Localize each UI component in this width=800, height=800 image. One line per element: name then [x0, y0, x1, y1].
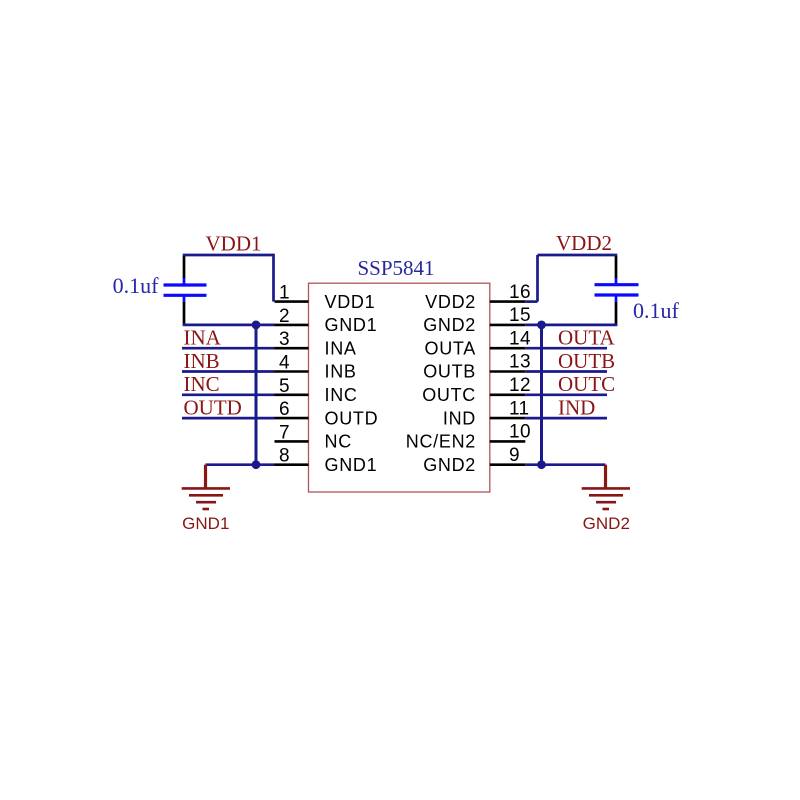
capacitor C1 bottom pin	[183, 297, 186, 325]
pin 10 number	[509, 422, 531, 443]
net label OUTC	[558, 372, 615, 396]
svg-text:VDD2: VDD2	[425, 292, 476, 312]
svg-text:VDD1: VDD1	[206, 232, 262, 256]
svg-text:VDD1: VDD1	[325, 292, 376, 312]
pin 10 stub	[490, 440, 526, 443]
pin 5 number	[279, 376, 290, 397]
pin 7 stub	[275, 440, 309, 443]
net VDD2 power label	[556, 231, 612, 255]
pin 12 stub	[490, 393, 526, 396]
junction pin9 bus	[537, 460, 546, 469]
pin 11 name IND	[443, 408, 476, 428]
svg-text:GND1: GND1	[325, 315, 378, 335]
svg-text:GND1: GND1	[325, 455, 378, 475]
net label OUTD	[184, 396, 242, 420]
ground GND2 symbol	[582, 465, 630, 509]
ground GND1 symbol	[182, 465, 230, 509]
net label OUTA	[558, 326, 615, 350]
pin 13 name OUTB	[423, 362, 476, 382]
capacitor C2 bottom pin	[615, 296, 618, 325]
pin 8 number	[279, 446, 290, 467]
pin 3 stub	[275, 347, 309, 350]
svg-text:0.1uf: 0.1uf	[113, 273, 160, 298]
capacitor C2 plates	[595, 285, 639, 295]
wire GND1 vertical bus	[255, 325, 258, 465]
svg-text:GND2: GND2	[583, 514, 630, 533]
pin 14 stub	[490, 347, 526, 350]
svg-text:8: 8	[279, 446, 290, 467]
pin 2 number	[279, 306, 290, 327]
wire net OUTA	[525, 347, 607, 350]
pin 16 stub	[490, 300, 526, 303]
pin 7 number	[279, 422, 290, 443]
net label INA	[184, 326, 222, 350]
svg-text:GND2: GND2	[423, 315, 476, 335]
svg-text:OUTA: OUTA	[425, 338, 476, 358]
pin 11 stub	[490, 417, 526, 420]
wire VDD2 vertical	[536, 255, 539, 302]
svg-text:INC: INC	[184, 372, 220, 396]
pin 9 stub	[490, 463, 526, 466]
pin 5 name INC	[325, 385, 358, 405]
wire pin 8 to ground	[206, 463, 275, 466]
pin 2 stub	[275, 324, 309, 327]
net label INC	[184, 372, 220, 396]
svg-text:6: 6	[279, 399, 290, 420]
pin 15 number	[509, 305, 531, 326]
pin 4 stub	[275, 370, 309, 373]
pin 12 number	[509, 375, 531, 396]
pin 3 number	[279, 329, 290, 350]
wire net OUTC	[525, 393, 607, 396]
pin 13 stub	[490, 370, 526, 373]
junction pin8 bus	[252, 460, 261, 469]
pin 7 name NC	[325, 432, 352, 452]
pin 12 name OUTC	[422, 385, 476, 405]
svg-text:14: 14	[509, 328, 531, 349]
pin 1 number	[279, 283, 290, 304]
svg-text:7: 7	[279, 422, 290, 443]
svg-text:OUTB: OUTB	[558, 349, 615, 373]
wire pin 2 net GND1 horizontal	[183, 324, 275, 327]
pin 1 stub	[275, 300, 309, 303]
pin 8 name GND1	[325, 455, 378, 475]
svg-text:11: 11	[509, 398, 530, 419]
pin 4 name INB	[325, 362, 357, 382]
net label OUTB	[558, 349, 615, 373]
IC U1 body	[309, 283, 490, 492]
svg-text:INA: INA	[184, 326, 222, 350]
wire net OUTB	[525, 370, 607, 373]
pin 15 name GND2	[423, 315, 476, 335]
pin 13 number	[509, 352, 531, 373]
wire pin 16 to corner	[525, 300, 537, 303]
pin 4 number	[279, 353, 290, 374]
pin 6 stub	[275, 417, 309, 420]
svg-text:4: 4	[279, 353, 290, 374]
net VDD1 power label	[206, 232, 262, 256]
svg-text:INB: INB	[325, 362, 357, 382]
wire net INA	[182, 347, 275, 350]
pin 3 name INA	[325, 338, 357, 358]
wire VDD2 top horizontal	[538, 254, 618, 257]
pin 11 number	[509, 398, 530, 419]
svg-text:5: 5	[279, 376, 290, 397]
svg-text:10: 10	[509, 422, 531, 443]
svg-text:IND: IND	[443, 408, 476, 428]
wire net OUTD	[182, 417, 275, 420]
svg-text:9: 9	[509, 445, 520, 466]
pin 9 name GND2	[423, 455, 476, 475]
svg-text:3: 3	[279, 329, 290, 350]
svg-text:VDD2: VDD2	[556, 231, 612, 255]
wire net IND	[525, 417, 607, 420]
svg-text:OUTD: OUTD	[184, 396, 242, 420]
pin 6 number	[279, 399, 290, 420]
svg-text:NC: NC	[325, 432, 352, 452]
svg-text:0.1uf: 0.1uf	[633, 298, 680, 323]
wire pin 9 to ground	[525, 463, 605, 466]
capacitor C2 top pin	[615, 256, 618, 284]
capacitor C1 top pin	[183, 256, 186, 284]
pin 15 stub	[490, 324, 526, 327]
ground label GND1	[182, 514, 229, 533]
pin 14 number	[509, 328, 531, 349]
IC U1 part name SSP5841	[357, 256, 434, 280]
svg-text:1: 1	[279, 283, 290, 304]
junction pin2 bus	[252, 321, 261, 330]
svg-text:INC: INC	[325, 385, 358, 405]
svg-text:2: 2	[279, 306, 290, 327]
svg-text:INA: INA	[325, 338, 357, 358]
net label IND	[558, 396, 595, 420]
net label INB	[184, 349, 220, 373]
wire net INC	[182, 393, 275, 396]
pin 6 name OUTD	[325, 408, 379, 428]
wire net INB	[182, 370, 275, 373]
svg-text:OUTC: OUTC	[422, 385, 476, 405]
pin 16 name VDD2	[425, 292, 476, 312]
wire VDD1 vertical to pin 1	[272, 254, 275, 302]
capacitor C2 value 0.1uf	[633, 298, 680, 323]
svg-text:GND2: GND2	[423, 455, 476, 475]
svg-text:OUTD: OUTD	[325, 408, 379, 428]
pin 1 name VDD1	[325, 292, 376, 312]
svg-text:INB: INB	[184, 349, 220, 373]
pin 9 number	[509, 445, 520, 466]
capacitor C1 value 0.1uf	[113, 273, 160, 298]
svg-text:NC/EN2: NC/EN2	[406, 432, 476, 452]
wire GND2 vertical bus	[540, 325, 543, 465]
svg-text:12: 12	[509, 375, 531, 396]
svg-text:SSP5841: SSP5841	[357, 256, 434, 280]
svg-text:OUTA: OUTA	[558, 326, 615, 350]
capacitor C1 plates	[164, 285, 207, 295]
svg-text:16: 16	[509, 282, 531, 303]
wire pin 15 net GND2 horizontal	[525, 324, 617, 327]
junction pin15 bus	[537, 321, 546, 330]
wire VDD1 top horizontal	[183, 254, 274, 257]
ground label GND2	[583, 514, 630, 533]
svg-text:GND1: GND1	[182, 514, 229, 533]
svg-text:OUTC: OUTC	[558, 372, 615, 396]
pin 5 stub	[275, 393, 309, 396]
pin 2 name GND1	[325, 315, 378, 335]
svg-text:OUTB: OUTB	[423, 362, 476, 382]
pin 16 number	[509, 282, 531, 303]
pin 10 name NC/EN2	[406, 432, 476, 452]
pin 8 stub	[275, 463, 309, 466]
pin 14 name OUTA	[425, 338, 476, 358]
svg-text:IND: IND	[558, 396, 595, 420]
svg-text:13: 13	[509, 352, 531, 373]
svg-text:15: 15	[509, 305, 531, 326]
